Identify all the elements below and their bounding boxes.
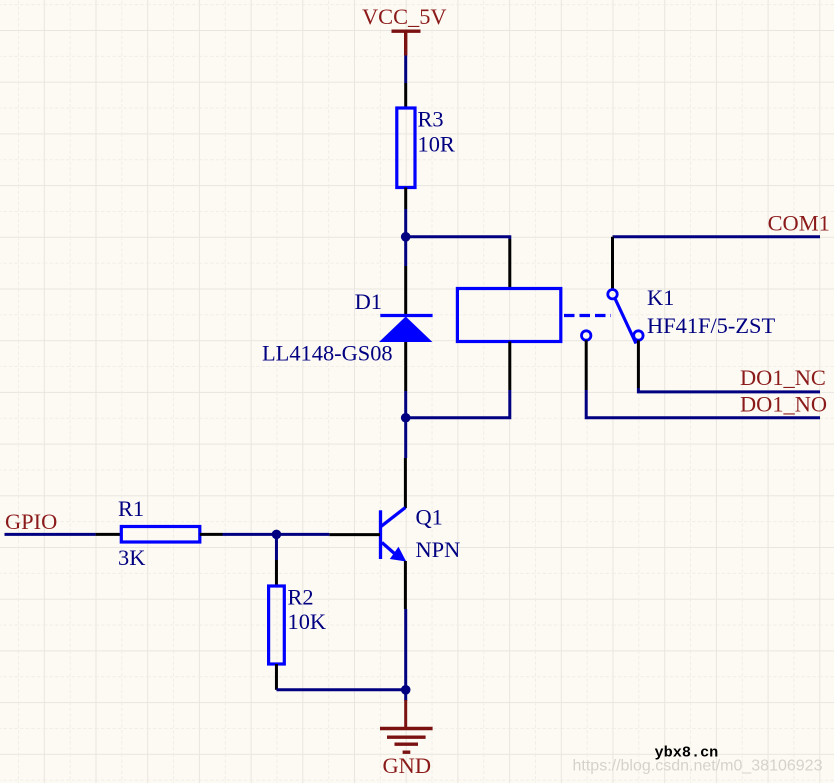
wire node A to relay coil	[406, 237, 510, 239]
wire node B to Q1 collector	[404, 418, 407, 458]
svg-text:10R: 10R	[418, 132, 455, 157]
svg-text:GPIO: GPIO	[5, 509, 57, 534]
wire relay coil to node B	[406, 390, 510, 418]
wire node A to D1	[404, 237, 407, 266]
dashed link coil to contact	[564, 314, 611, 317]
svg-text:K1: K1	[647, 285, 674, 310]
wire node C to Q1 base	[276, 533, 329, 536]
wire R2 to node D	[276, 688, 405, 691]
svg-text:Q1: Q1	[416, 505, 443, 530]
svg-text:3K: 3K	[118, 545, 145, 570]
resistor R1	[96, 527, 223, 543]
resistor R3	[397, 83, 415, 209]
power port VCC_5V	[392, 31, 421, 55]
wire VCC to R3	[404, 56, 407, 84]
junction node A	[401, 232, 411, 242]
wire Q1 emitter to node D	[404, 609, 407, 690]
svg-text:NPN: NPN	[416, 537, 461, 562]
wire R1 to node C	[223, 533, 277, 536]
wire node D to GND	[404, 690, 407, 701]
wire node C to R2	[275, 534, 278, 560]
junction node B	[401, 413, 411, 423]
wire GPIO to R1	[5, 533, 96, 536]
wire DO1_NO	[586, 390, 820, 418]
svg-text:DO1_NC: DO1_NC	[740, 365, 826, 390]
svg-text:R1: R1	[118, 496, 144, 521]
svg-text:R3: R3	[418, 106, 444, 131]
junction node D	[401, 685, 411, 695]
ground GND	[380, 700, 433, 752]
wire COM1	[613, 235, 821, 238]
relay K1 coil	[457, 239, 560, 390]
transistor Q1	[329, 458, 406, 609]
svg-text:D1: D1	[355, 289, 382, 314]
diode D1	[379, 266, 433, 391]
wire R3 to node A	[404, 209, 407, 237]
wire D1 to node B	[404, 391, 407, 418]
svg-text:10K: 10K	[288, 609, 327, 634]
relay K1 contact	[582, 237, 644, 390]
svg-text:VCC_5V: VCC_5V	[362, 4, 447, 29]
svg-text:DO1_NO: DO1_NO	[740, 392, 827, 417]
svg-text:GND: GND	[383, 753, 432, 778]
svg-text:R2: R2	[288, 585, 314, 610]
svg-text:LL4148-GS08: LL4148-GS08	[262, 341, 393, 366]
svg-text:COM1: COM1	[768, 210, 830, 235]
svg-text:https://blog.csdn.net/m0_38106: https://blog.csdn.net/m0_38106923	[573, 758, 823, 775]
junction node C	[272, 530, 282, 540]
resistor R2	[269, 560, 285, 690]
wire DO1_NC	[638, 388, 820, 392]
svg-text:HF41F/5-ZST: HF41F/5-ZST	[647, 313, 775, 338]
